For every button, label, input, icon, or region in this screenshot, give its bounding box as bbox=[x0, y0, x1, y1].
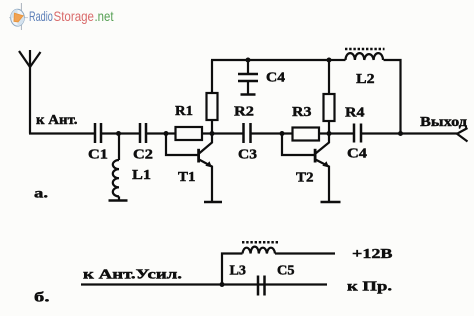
svg-text:L3: L3 bbox=[230, 264, 247, 279]
svg-text:L1: L1 bbox=[132, 168, 151, 183]
svg-text:Выход: Выход bbox=[420, 115, 467, 130]
svg-text:R1: R1 bbox=[175, 104, 193, 119]
svg-text:C4: C4 bbox=[266, 71, 285, 86]
svg-text:а.: а. bbox=[34, 187, 48, 202]
resistor R2 bbox=[207, 93, 218, 120]
capacitor C3 bbox=[244, 123, 251, 143]
wire antenna to C1 bbox=[29, 132, 94, 134]
svg-text:к Ант.: к Ант. bbox=[36, 113, 78, 128]
svg-text:C1: C1 bbox=[88, 148, 108, 163]
top rail bbox=[211, 59, 330, 61]
capacitor C4 output bbox=[354, 124, 361, 143]
node L1 junction bbox=[116, 131, 121, 136]
svg-text:Radio: Radio bbox=[29, 8, 53, 24]
svg-text:L2: L2 bbox=[356, 72, 375, 87]
wire R4 vertical bbox=[328, 121, 330, 134]
wire R2 to rail bbox=[211, 60, 213, 93]
logo text RadioStorage.net bbox=[29, 8, 114, 24]
wire L2 to output line bbox=[384, 60, 401, 134]
wire R2 vertical bbox=[211, 120, 213, 134]
node rail L2 junction bbox=[327, 58, 332, 63]
svg-text:C5: C5 bbox=[277, 264, 295, 279]
node C4 rail junction bbox=[246, 58, 251, 63]
inductor L3 bbox=[242, 242, 279, 253]
wire C1 to C2 bbox=[102, 132, 139, 134]
antenna bbox=[19, 50, 41, 134]
svg-text:к Ант.Усил.: к Ант.Усил. bbox=[83, 268, 182, 283]
wire C2 to R1 bbox=[147, 132, 176, 134]
wire R3 to C4 bbox=[319, 132, 354, 134]
wire C3 to R3 bbox=[251, 132, 293, 134]
capacitor C4 (bypass) bbox=[238, 60, 258, 95]
wire R1 to C3 bbox=[202, 132, 243, 134]
svg-text:C4: C4 bbox=[347, 147, 367, 162]
inductor L2 bbox=[330, 49, 385, 60]
output chevron bbox=[457, 128, 468, 142]
svg-text:б.: б. bbox=[34, 291, 50, 306]
svg-text:R4: R4 bbox=[345, 106, 365, 121]
resistor R4 bbox=[324, 94, 335, 121]
capacitor C2 bbox=[140, 123, 146, 143]
node T1 base junction bbox=[164, 131, 169, 136]
transistor T1 bbox=[166, 134, 222, 203]
svg-text:Storage: Storage bbox=[54, 8, 95, 24]
wire C4 to output bbox=[362, 132, 457, 134]
svg-text:C2: C2 bbox=[133, 148, 153, 163]
svg-text:к Пр.: к Пр. bbox=[347, 280, 392, 295]
svg-text:.net: .net bbox=[95, 8, 114, 24]
svg-text:C3: C3 bbox=[238, 148, 257, 163]
capacitor C1 bbox=[95, 123, 101, 143]
svg-text:T1: T1 bbox=[178, 170, 196, 185]
svg-text:T2: T2 bbox=[296, 171, 314, 186]
logo icon bbox=[9, 3, 28, 30]
node output junction bbox=[398, 131, 403, 136]
wire R4 to rail bbox=[328, 60, 330, 94]
capacitor C5 bbox=[258, 276, 265, 296]
wire L3 riser bbox=[222, 254, 243, 285]
resistor R3 bbox=[293, 128, 320, 141]
wire lower line b bbox=[81, 283, 327, 285]
node T2 collector bbox=[327, 131, 332, 136]
node T1 collector bbox=[210, 131, 215, 136]
node T2 base junction bbox=[280, 131, 285, 136]
svg-text:R2: R2 bbox=[234, 105, 254, 120]
svg-text:+12В: +12В bbox=[352, 247, 393, 262]
svg-text:R3: R3 bbox=[292, 105, 312, 120]
inductor L1 bbox=[109, 134, 128, 201]
node L3 junction bbox=[220, 282, 225, 287]
transistor T2 bbox=[282, 134, 341, 203]
resistor R1 bbox=[176, 127, 203, 140]
wire L3 to +12V bbox=[275, 252, 335, 254]
